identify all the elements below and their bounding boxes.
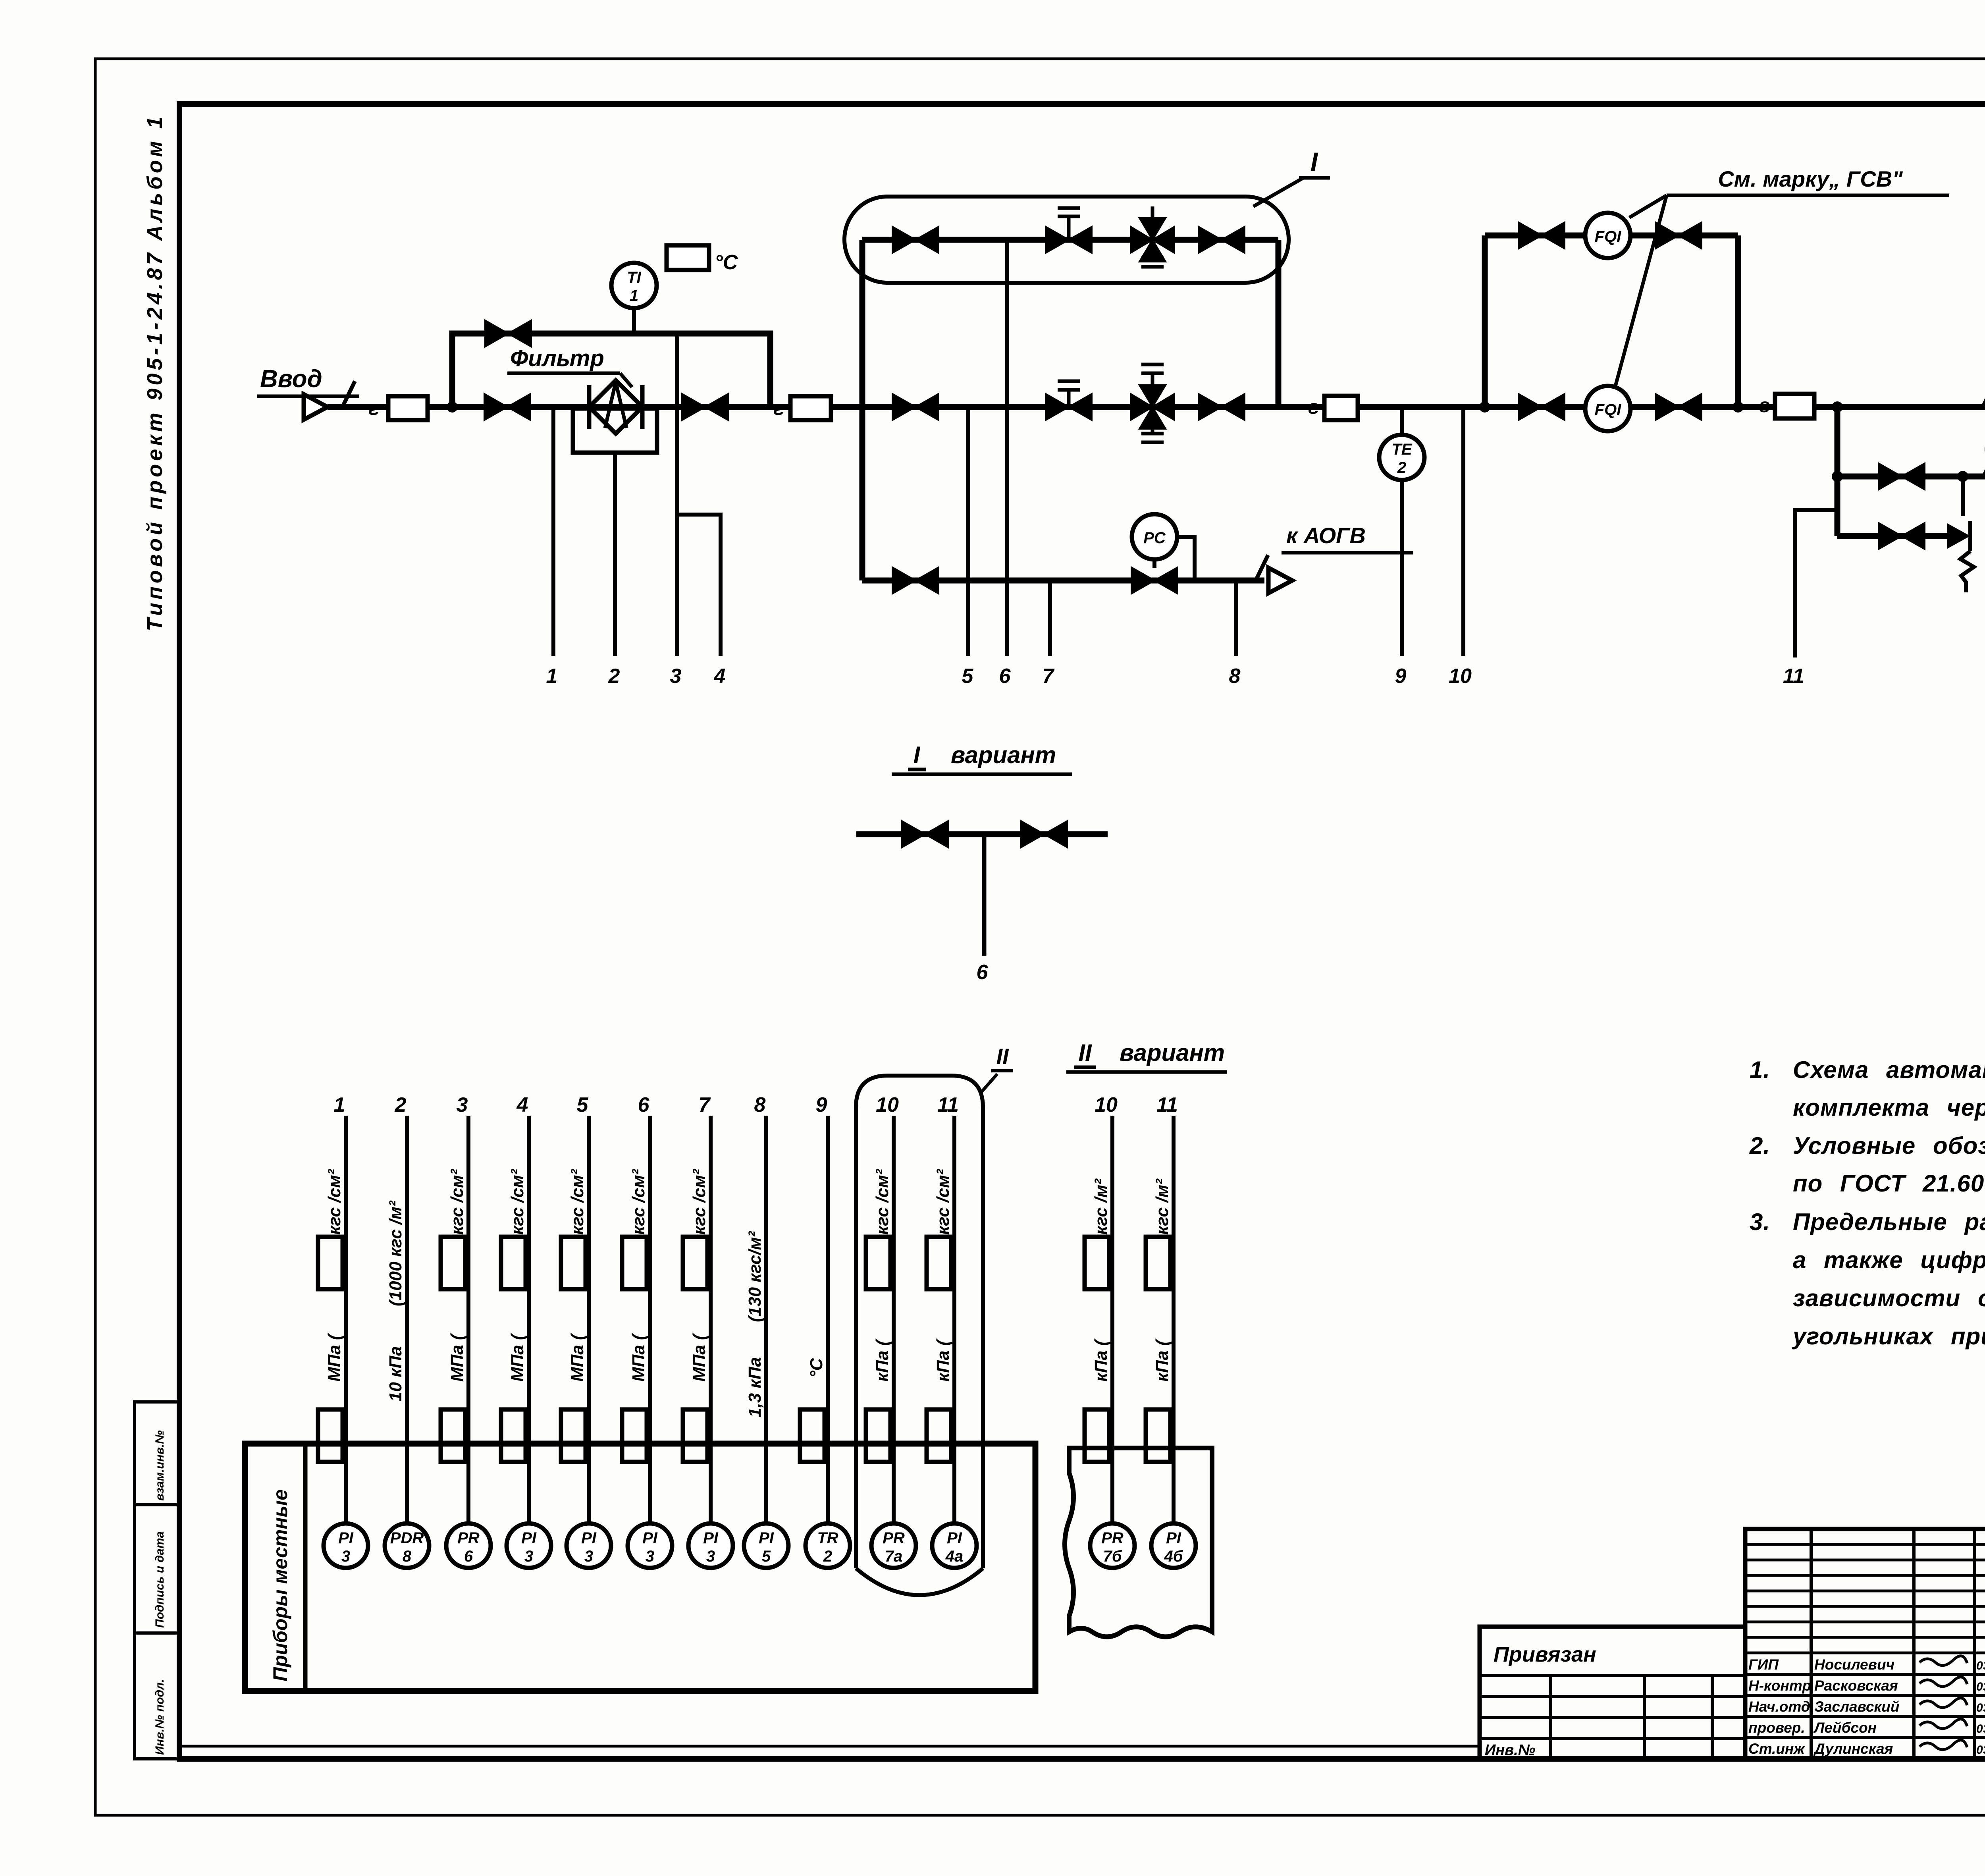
wire outlet line [1814, 404, 1985, 410]
wire atmosphere branch [1837, 474, 1985, 480]
svg-text:кгс /см²: кгс /см² [447, 1168, 467, 1235]
svg-text:ГИП: ГИП [1748, 1656, 1779, 1673]
svg-text:МПа (: МПа ( [690, 1332, 709, 1382]
instrument bubble PR-6 [446, 1523, 491, 1568]
pipe designation box 4 [1775, 394, 1814, 418]
PC stem and connector [1152, 559, 1156, 568]
value box lower, line 5 [561, 1409, 586, 1462]
signal line 2 [613, 453, 617, 656]
wire inlet to box [328, 404, 388, 410]
node: meter loop left tee [1479, 401, 1490, 413]
svg-text:3: 3 [341, 1548, 350, 1565]
svg-text:Лейбсон: Лейбсон [1813, 1720, 1877, 1736]
signal line 6 [1005, 240, 1009, 656]
svg-text:PI: PI [338, 1529, 354, 1547]
svg-text:кгс /см²: кгс /см² [629, 1168, 648, 1235]
pipe designation box 1 [388, 396, 428, 420]
wire I вариант run [856, 831, 1108, 837]
svg-text:6: 6 [977, 961, 989, 984]
svg-text:9: 9 [1395, 665, 1407, 688]
svg-text:взам.инв.№: взам.инв.№ [153, 1430, 166, 1501]
seat bars below cross-valve top [1141, 256, 1164, 260]
svg-text:10 кПа: 10 кПа [386, 1346, 405, 1402]
svg-text:кгс /см²: кгс /см² [933, 1168, 953, 1235]
svg-text:3: 3 [706, 1548, 715, 1565]
section I capsule (oval) [844, 197, 1289, 283]
svg-text:вариант: вариант [951, 742, 1056, 768]
svg-text:9: 9 [816, 1093, 827, 1116]
svg-text:8: 8 [1229, 665, 1241, 688]
instrument bubble PI-4а [932, 1523, 977, 1568]
arrow к АОГВ [1268, 568, 1292, 593]
signal line 4 (lower section) [527, 1116, 531, 1524]
svg-text:PI: PI [759, 1529, 774, 1547]
filter (Фильтр) symbol [589, 380, 642, 434]
value box upper, line 10 II [1085, 1237, 1109, 1289]
svg-text:11: 11 [1783, 665, 1804, 688]
svg-text:кгс /см²: кгс /см² [568, 1168, 587, 1235]
svg-text:кгс /м²: кгс /м² [1091, 1178, 1111, 1235]
Привязан table [1480, 1627, 1745, 1759]
instrument PC (РС) [1132, 514, 1177, 559]
svg-text:2: 2 [395, 1093, 407, 1116]
svg-text:PDR: PDR [390, 1529, 424, 1547]
signal line 8 (lower section) [764, 1116, 768, 1524]
instrument TE-2 [1379, 435, 1424, 480]
svg-text:03.87: 03.87 [1976, 1743, 1985, 1756]
svg-text:5: 5 [962, 665, 974, 688]
svg-text:11: 11 [1156, 1093, 1178, 1116]
instrument bubble PI-5 [744, 1523, 788, 1568]
actuator bars middle branch [1058, 380, 1080, 383]
valve with stem, middle branch [1067, 390, 1071, 407]
value box lower, line 3 [441, 1409, 465, 1462]
value box upper, line 6 [622, 1237, 647, 1289]
svg-text:кПа (: кПа ( [1091, 1338, 1111, 1382]
filter drain box [573, 409, 657, 453]
svg-text:I: I [1310, 147, 1318, 176]
safety relief valve [1947, 523, 1970, 549]
torn-edge box II вариант instruments [1065, 1448, 1212, 1637]
svg-text:а также цифровое обозначени: а также цифровое обозначение газопроводо… [1793, 1247, 1985, 1273]
valve body middle branch with stem [1046, 394, 1092, 420]
value box upper, line 11 [927, 1237, 951, 1289]
actuator bars top branch [1058, 206, 1080, 210]
svg-text:TR: TR [817, 1529, 838, 1547]
inlet arrow (Ввод) [304, 394, 328, 420]
instrument TI-1 [611, 263, 657, 308]
svg-text:PI: PI [642, 1529, 658, 1547]
value box upper, line 5 [561, 1237, 586, 1289]
thermometer TI-1 stem [632, 308, 636, 334]
value box lower, line 1 [318, 1409, 343, 1462]
value box lower, line 6 [622, 1409, 647, 1462]
control cross-valve top branch [1131, 218, 1174, 262]
value box upper, line 10 [866, 1237, 890, 1289]
valve meter run left [1519, 394, 1565, 420]
svg-text:г: г [773, 397, 784, 419]
valve bottom branch [892, 567, 939, 594]
svg-text:кПа (: кПа ( [873, 1338, 892, 1382]
svg-text:кгс /см²: кгс /см² [873, 1168, 892, 1235]
value box lower, line 11 [927, 1409, 951, 1462]
svg-text:7а: 7а [885, 1548, 903, 1565]
svg-text:угольниках при привяз: угольниках при привязке проекта. [1792, 1323, 1985, 1350]
node: relief tie-in [1957, 471, 1968, 482]
svg-text:FQI: FQI [1595, 228, 1622, 245]
svg-text:3: 3 [646, 1548, 654, 1565]
svg-text:вариант: вариант [1120, 1039, 1225, 1066]
left sidebar table [135, 1402, 179, 1759]
signal line 3 (lower section) [466, 1116, 470, 1524]
value box lower, line 4 [501, 1409, 526, 1462]
svg-text:6: 6 [999, 665, 1011, 688]
svg-text:6: 6 [638, 1093, 650, 1116]
svg-text:МПа (: МПа ( [325, 1332, 344, 1382]
valve body top branch with stem [1046, 227, 1092, 253]
svg-text:г: г [1759, 394, 1770, 416]
wire atmosphere riser [1835, 407, 1840, 536]
valve on filter bypass [485, 320, 531, 347]
svg-text:(130 кгс/м²: (130 кгс/м² [745, 1231, 765, 1322]
value box upper, line 1 [318, 1237, 343, 1289]
svg-text:PI: PI [581, 1529, 597, 1547]
svg-text:PI: PI [703, 1529, 719, 1547]
svg-text:Расковская: Расковская [1814, 1677, 1898, 1694]
pipe designation box 2 [790, 396, 831, 420]
band divider line above title blocks [179, 1745, 1480, 1748]
svg-text:4а: 4а [945, 1548, 964, 1565]
svg-text:II: II [1078, 1039, 1092, 1066]
svg-text:2: 2 [608, 665, 620, 688]
wire meter loop right riser [1735, 235, 1741, 407]
inlet break slash [342, 381, 355, 407]
instrument bubble PR-7б [1090, 1523, 1135, 1568]
value box upper, line 3 [441, 1237, 465, 1289]
signal line 10 (II вариант) [1110, 1116, 1114, 1524]
valve I вариант left [902, 821, 948, 847]
valve atmosphere branch [1879, 463, 1925, 490]
svg-text:TI: TI [627, 269, 641, 286]
svg-text:Схема автоматизации выполнен: Схема автоматизации выполнена на основан… [1793, 1057, 1985, 1083]
svg-text:РС: РС [1143, 529, 1166, 547]
svg-text:кгс /см²: кгс /см² [690, 1168, 709, 1235]
valve top branch right [1199, 227, 1245, 253]
svg-text:6: 6 [464, 1548, 473, 1565]
svg-text:3.: 3. [1750, 1209, 1770, 1235]
svg-text:кПа (: кПа ( [933, 1338, 953, 1382]
svg-text:2: 2 [823, 1548, 832, 1565]
signal line 6 (lower section) [648, 1116, 652, 1524]
svg-text:Ст.инж: Ст.инж [1748, 1741, 1805, 1757]
svg-text:10: 10 [876, 1093, 899, 1116]
svg-text:FQI: FQI [1595, 401, 1622, 418]
node: atmosphere branch tee [1832, 471, 1843, 482]
value box upper, line 11 II [1146, 1237, 1170, 1289]
valve relief branch [1879, 523, 1925, 549]
svg-text:4б: 4б [1164, 1548, 1183, 1565]
svg-text:I: I [913, 742, 921, 768]
signal line 3 [675, 334, 679, 656]
signal line 11 tap [1795, 510, 1837, 657]
wire meter loop left riser [1482, 235, 1488, 407]
value box lower, line 10 II [1085, 1409, 1109, 1462]
svg-text:Нач.отд.: Нач.отд. [1748, 1699, 1814, 1715]
wire manifold top branch [862, 237, 1278, 243]
svg-text:10: 10 [1095, 1093, 1118, 1116]
valve with stem, top branch [1067, 216, 1071, 240]
svg-text:Приборы местные: Приборы местные [269, 1489, 291, 1681]
valve middle branch right [1199, 394, 1245, 420]
svg-text:МПа (: МПа ( [508, 1332, 527, 1382]
svg-text:Ввод: Ввод [260, 365, 322, 393]
wire manifold right header [1276, 240, 1282, 407]
svg-text:ТЕ: ТЕ [1391, 441, 1412, 458]
section II capsule [856, 1076, 983, 1568]
actuator bars above cross-valve middle [1141, 363, 1164, 366]
svg-text:03.87: 03.87 [1976, 1680, 1985, 1693]
svg-text:МПа (: МПа ( [629, 1332, 648, 1382]
valve meter loop top right [1655, 222, 1702, 249]
node: meter loop right tee [1733, 401, 1744, 413]
svg-text:03.87: 03.87 [1976, 1659, 1985, 1672]
seat bars below cross-valve middle [1141, 432, 1164, 436]
signal line 10 (lower section) [892, 1116, 896, 1524]
svg-text:Инв.№ подл.: Инв.№ подл. [153, 1679, 166, 1755]
svg-text:См. марку„ ГСВ": См. марку„ ГСВ" [1718, 166, 1903, 191]
svg-text:Инв.№: Инв.№ [1485, 1742, 1535, 1758]
signal line 4 (branch of line 3) [677, 515, 721, 656]
valve top branch left [892, 227, 939, 253]
svg-text:Носилевич: Носилевич [1814, 1656, 1894, 1673]
svg-text:г: г [1308, 396, 1319, 418]
instrument bubble PI-3 [324, 1523, 368, 1568]
svg-text:Типовой проект 905-1-24.87 А: Типовой проект 905-1-24.87 Альбом 1 [143, 114, 167, 631]
svg-text:(1000 кгс /м²: (1000 кгс /м² [386, 1200, 405, 1306]
instrument bubble PI-3 [628, 1523, 672, 1568]
signal line 1 (lower section) [344, 1116, 348, 1524]
valve upstream of filter [484, 394, 530, 420]
svg-text:03.87: 03.87 [1976, 1701, 1985, 1714]
node: outlet tee [1832, 401, 1843, 413]
break slash к АОГВ [1255, 555, 1268, 581]
svg-text:2: 2 [1397, 459, 1406, 476]
svg-text:2.: 2. [1749, 1132, 1770, 1159]
value box lower, line 9 [800, 1409, 825, 1462]
svg-text:3: 3 [584, 1548, 593, 1565]
pipe designation box 3 [1324, 396, 1358, 420]
svg-text:кПа (: кПа ( [1152, 1338, 1172, 1382]
instrument bubble PI-4б [1151, 1523, 1196, 1568]
svg-text:1: 1 [334, 1093, 345, 1116]
svg-text:кгс /м²: кгс /м² [1152, 1178, 1172, 1235]
svg-text:Привязан: Привязан [1494, 1643, 1596, 1666]
svg-text:10: 10 [1449, 665, 1472, 688]
title block: signature table [1745, 1529, 1985, 1759]
svg-text:II: II [996, 1044, 1009, 1069]
svg-text:4: 4 [714, 665, 726, 688]
signal line 9 with TE-2 [1400, 407, 1404, 656]
signal line 9 (lower section) [826, 1116, 830, 1524]
value box upper, line 4 [501, 1237, 526, 1289]
instrument bubble PDR-8 [385, 1523, 429, 1568]
signal line 8 [1234, 580, 1238, 656]
svg-text:8: 8 [754, 1093, 766, 1116]
wire bottom branch [862, 578, 1264, 584]
svg-text:по ГОСТ 21.609-83.: по ГОСТ 21.609-83. [1793, 1170, 1985, 1197]
svg-text:кгс /см²: кгс /см² [325, 1168, 344, 1235]
wire manifold left header [860, 240, 865, 580]
control cross-valve middle branch [1131, 385, 1174, 429]
wire meter loop top run [1485, 233, 1738, 239]
svg-text:Предельные рабочие значения: Предельные рабочие значения измеряемых в… [1793, 1209, 1985, 1235]
svg-text:кгс /см²: кгс /см² [508, 1168, 527, 1235]
instrument bubble PI-3 [507, 1523, 551, 1568]
svg-text:1: 1 [546, 665, 558, 688]
value box lower, line 11 II [1146, 1409, 1170, 1462]
svg-text:к АОГВ: к АОГВ [1286, 523, 1366, 548]
svg-text:1: 1 [630, 287, 638, 305]
svg-text:Заславский: Заславский [1814, 1699, 1899, 1715]
wire relief branch [1837, 533, 1947, 539]
svg-text:°С: °С [807, 1357, 826, 1378]
value box lower, line 10 [866, 1409, 890, 1462]
signal line 5 [966, 407, 970, 656]
table Приборы местные [245, 1444, 1035, 1691]
signal line 7 [1048, 580, 1052, 656]
svg-text:5: 5 [762, 1548, 771, 1565]
signal line 1 [551, 407, 555, 656]
svg-text:11: 11 [937, 1093, 959, 1116]
svg-text:МПа (: МПа ( [447, 1332, 467, 1382]
svg-text:PR: PR [457, 1529, 480, 1547]
svg-text:1.: 1. [1750, 1057, 1770, 1083]
svg-text:8: 8 [403, 1548, 412, 1565]
wire manifold middle branch / main line [831, 404, 1324, 410]
svg-text:1,3 кПа: 1,3 кПа [745, 1357, 765, 1417]
svg-text:7б: 7б [1103, 1548, 1122, 1565]
valve downstream of filter [682, 394, 728, 420]
svg-text:комплекта чертежей марки „ Г: комплекта чертежей марки „ ГСВ." [1793, 1094, 1985, 1121]
instrument FQI (on main run) [1585, 386, 1630, 431]
signal line 5 (lower section) [587, 1116, 591, 1524]
svg-text:PI: PI [947, 1529, 962, 1547]
wire main line through filter section [428, 404, 862, 410]
svg-text:°С: °С [715, 251, 738, 274]
svg-text:PR: PR [883, 1529, 905, 1547]
instrument bubble TR-2 [806, 1523, 850, 1568]
svg-text:03.87: 03.87 [1976, 1722, 1985, 1735]
signal line 7 (lower section) [709, 1116, 713, 1524]
svg-text:Фильтр: Фильтр [510, 345, 604, 371]
valve meter loop top left [1519, 222, 1565, 249]
wire bypass riser left [452, 334, 770, 407]
instrument bubble PR-7а [871, 1523, 916, 1568]
signal line 11 (II вариант) [1172, 1116, 1176, 1524]
svg-text:5: 5 [577, 1093, 589, 1116]
svg-text:PI: PI [521, 1529, 537, 1547]
regulator valve to АОГВ [1131, 567, 1178, 594]
svg-text:7: 7 [1043, 665, 1055, 688]
svg-text:3: 3 [457, 1093, 468, 1116]
svg-text:PI: PI [1166, 1529, 1181, 1547]
signal line 2 (lower section) [405, 1116, 409, 1524]
svg-text:Условные обозначения газопро: Условные обозначения газопроводов принят… [1793, 1132, 1985, 1159]
break slash Вывод [1983, 381, 1985, 407]
svg-text:г: г [368, 397, 379, 419]
svg-text:7: 7 [699, 1093, 711, 1116]
svg-text:Н-контр: Н-контр [1748, 1677, 1811, 1694]
signal line 6 (I вариант) [982, 834, 987, 956]
°C rectangle [667, 245, 709, 270]
svg-text:4: 4 [516, 1093, 528, 1116]
value box upper, line 7 [683, 1237, 707, 1289]
value box lower, line 7 [683, 1409, 707, 1462]
svg-text:зависимости от давления, пр: зависимости от давления, проставить в пр… [1793, 1285, 1985, 1311]
svg-text:провер.: провер. [1748, 1720, 1805, 1736]
svg-text:3: 3 [670, 665, 682, 688]
valve middle branch left [892, 394, 939, 420]
svg-text:3: 3 [524, 1548, 533, 1565]
valve I вариант right [1021, 821, 1067, 847]
node: bypass tee [447, 401, 458, 413]
signal line 10 [1461, 407, 1465, 656]
break slash В атмосферу [1983, 451, 1985, 477]
wire relief connector [1961, 476, 1965, 516]
instrument FQI (top) [1585, 213, 1630, 258]
valve meter run right [1655, 394, 1702, 420]
svg-text:Дулинская: Дулинская [1813, 1741, 1893, 1757]
signal line 11 (lower section) [952, 1116, 956, 1524]
svg-text:PR: PR [1101, 1529, 1124, 1547]
instrument bubble PI-3 [688, 1523, 733, 1568]
svg-text:Подпись и дата: Подпись и дата [153, 1531, 166, 1628]
svg-text:МПа (: МПа ( [568, 1332, 587, 1382]
instrument bubble PI-3 [567, 1523, 611, 1568]
wire main line metering section [1358, 404, 1775, 410]
